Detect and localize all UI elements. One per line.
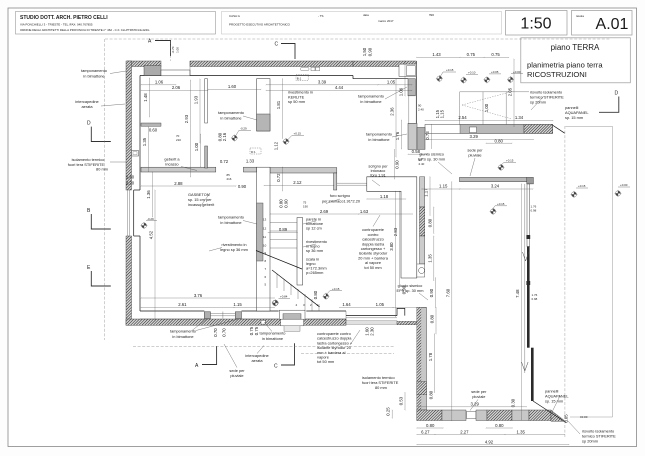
svg-text:6.27: 6.27 (421, 429, 430, 434)
svg-text:0.75: 0.75 (467, 52, 476, 57)
svg-text:1,50: 1,50 (362, 47, 367, 56)
svg-text:- TS: - TS (318, 14, 324, 18)
svg-text:+0.10: +0.10 (468, 71, 476, 75)
svg-text:0.98: 0.98 (531, 208, 537, 212)
svg-text:foro scrigno: foro scrigno (330, 193, 350, 198)
svg-text:tamponamento: tamponamento (358, 94, 384, 99)
svg-text:EPS sp. 30 mm: EPS sp. 30 mm (396, 288, 423, 293)
svg-text:7.60: 7.60 (445, 288, 450, 297)
svg-text:sp 20mm: sp 20mm (582, 439, 598, 444)
svg-text:1.35: 1.35 (427, 254, 432, 263)
svg-text:in bimattone: in bimattone (368, 137, 389, 142)
svg-text:pluviale: pluviale (472, 394, 485, 399)
svg-text:STUDIO DOTT. ARCH. PIETRO CELL: STUDIO DOTT. ARCH. PIETRO CELLI (20, 15, 108, 21)
svg-text:sp 50 mm: sp 50 mm (288, 99, 305, 104)
svg-text:1.06: 1.06 (399, 87, 404, 96)
east glazed wall (527, 184, 530, 247)
svg-text:-0.70: -0.70 (171, 46, 175, 53)
svg-text:0.80: 0.80 (427, 218, 432, 227)
terrace boundary (565, 126, 612, 417)
svg-text:4.52: 4.52 (149, 230, 154, 239)
svg-text:10: 10 (263, 243, 267, 247)
svg-text:1.18: 1.18 (380, 194, 389, 199)
svg-text:±0.00: ±0.00 (580, 415, 588, 419)
svg-text:13: 13 (263, 218, 267, 222)
svg-text:2.06: 2.06 (172, 85, 181, 90)
right wing west wall (417, 307, 427, 410)
svg-text:2.40: 2.40 (419, 162, 425, 166)
svg-text:+0.84: +0.84 (280, 295, 288, 299)
svg-text:p=265mm: p=265mm (306, 270, 323, 275)
svg-text:0.25: 0.25 (386, 407, 391, 416)
svg-text:in bimattone: in bimattone (360, 99, 381, 104)
right wall upper segs (399, 64, 416, 76)
svg-text:1.15: 1.15 (439, 184, 448, 189)
svg-text:data: data (363, 13, 369, 17)
dashed section/boundary lines (104, 39, 106, 340)
svg-text:1.05: 1.05 (387, 80, 396, 85)
svg-text:80 mm: 80 mm (375, 385, 387, 390)
svg-text:1.06: 1.06 (155, 80, 164, 85)
svg-text:0.70: 0.70 (213, 328, 218, 337)
svg-text:2.20: 2.20 (126, 181, 135, 186)
svg-text:0.30: 0.30 (511, 398, 516, 407)
svg-text:1.81: 1.81 (276, 100, 281, 109)
svg-text:tamponamento: tamponamento (81, 68, 107, 73)
stair east wall (297, 218, 303, 285)
svg-text:0.80: 0.80 (426, 423, 435, 428)
svg-text:0.89: 0.89 (279, 227, 288, 232)
svg-text:0.72: 0.72 (220, 159, 229, 164)
svg-text:3.24: 3.24 (491, 184, 500, 189)
svg-text:2.93: 2.93 (184, 114, 189, 123)
wing bottom wall (417, 410, 442, 421)
svg-text:B:1: B:1 (297, 76, 302, 80)
svg-text:foro 1.91: foro 1.91 (370, 173, 385, 178)
east rooms band (270, 168, 337, 173)
svg-text:80 mm: 80 mm (96, 167, 108, 172)
svg-text:0.75: 0.75 (254, 326, 259, 335)
svg-text:1.64: 1.64 (342, 302, 351, 307)
svg-text:C: C (275, 42, 279, 48)
svg-text:3.76: 3.76 (194, 293, 203, 298)
svg-text:ORDINE DEGLI ARCHITETTI DELLA: ORDINE DEGLI ARCHITETTI DELLA PROVINCIA … (20, 28, 150, 32)
svg-text:7.48: 7.48 (515, 289, 520, 298)
svg-text:marzo 2017: marzo 2017 (378, 19, 394, 23)
svg-text:0.80: 0.80 (429, 314, 434, 323)
svg-text:+0.00: +0.00 (620, 183, 628, 187)
svg-text:tamponamento: tamponamento (366, 132, 392, 137)
svg-text:aerata: aerata (81, 104, 93, 109)
svg-text:3.80: 3.80 (389, 242, 394, 251)
svg-text:-0.29: -0.29 (147, 217, 154, 221)
svg-text:+0.15: +0.15 (506, 159, 514, 163)
svg-text:in bimattone: in bimattone (83, 74, 104, 79)
scrigno strip (420, 177, 425, 207)
svg-text:1.60: 1.60 (228, 84, 237, 89)
terrace steps (459, 92, 461, 125)
svg-text:1.34: 1.34 (515, 115, 524, 120)
svg-text:C: C (274, 364, 278, 370)
svg-text:1.43: 1.43 (432, 52, 441, 57)
svg-text:aerata: aerata (251, 358, 263, 363)
svg-text:2.61: 2.61 (178, 302, 187, 307)
svg-text:in bimattone: in bimattone (172, 334, 193, 339)
svg-text:legno sp 36 mm: legno sp 36 mm (220, 247, 248, 252)
svg-text:210: 210 (176, 138, 181, 142)
svg-text:2.12: 2.12 (293, 180, 302, 185)
svg-text:1.78: 1.78 (428, 352, 433, 361)
svg-text:0.90: 0.90 (395, 160, 400, 169)
section markers (91, 41, 619, 366)
svg-text:0.73: 0.73 (425, 131, 430, 140)
svg-text:2.27: 2.27 (460, 429, 469, 434)
svg-text:3.39: 3.39 (318, 80, 327, 85)
glazed south opening (346, 321, 397, 325)
svg-text:0.90: 0.90 (429, 288, 434, 297)
svg-text:1.00: 1.00 (194, 142, 199, 151)
svg-text:0.05: 0.05 (564, 414, 569, 423)
svg-text:agg: agg (429, 13, 434, 17)
svg-text:0.90: 0.90 (284, 199, 289, 208)
svg-text:tavola: tavola (576, 14, 584, 18)
svg-text:1.33: 1.33 (246, 159, 255, 164)
svg-text:D: D (87, 121, 91, 127)
svg-text:in bimattone: in bimattone (262, 336, 283, 341)
svg-text:D: D (615, 91, 619, 97)
svg-text:1.35: 1.35 (142, 137, 147, 146)
svg-text:0.72: 0.72 (276, 173, 281, 182)
svg-text:0,90: 0,90 (368, 47, 373, 56)
svg-text:0.60: 0.60 (149, 127, 158, 132)
svg-text:+0.15: +0.15 (294, 132, 302, 136)
svg-text:pluviale: pluviale (468, 153, 481, 158)
svg-text:190: 190 (303, 204, 308, 208)
svg-text:2.30: 2.30 (369, 327, 374, 336)
svg-text:1.93: 1.93 (194, 95, 199, 104)
svg-text:+0.15: +0.15 (446, 68, 454, 72)
svg-text:1.15: 1.15 (233, 302, 242, 307)
level markers (141, 68, 631, 306)
svg-text:4.92: 4.92 (485, 439, 494, 444)
svg-text:12: 12 (263, 226, 267, 230)
svg-text:2.40: 2.40 (418, 107, 424, 111)
top wall hatch (127, 61, 161, 67)
svg-text:0.90: 0.90 (238, 184, 247, 189)
svg-text:0.80: 0.80 (313, 290, 318, 299)
svg-text:sp. 15 mm: sp. 15 mm (565, 115, 583, 120)
svg-text:+0.15: +0.15 (332, 287, 340, 291)
parapet band upper (425, 125, 553, 134)
svg-text:tamponamento: tamponamento (218, 110, 244, 115)
interior horiz wall (141, 167, 216, 172)
svg-text:sp 20mm: sp 20mm (530, 100, 546, 105)
svg-text:+0.15: +0.15 (497, 202, 505, 206)
svg-text:CASA G: CASA G (229, 14, 241, 18)
svg-text:A.01: A.01 (596, 16, 629, 33)
svg-text:1.35: 1.35 (517, 429, 526, 434)
svg-text:0.80: 0.80 (495, 423, 504, 428)
TITLEBLOCK (16, 11, 633, 83)
svg-text:2.88: 2.88 (174, 181, 183, 186)
svg-text:1.36: 1.36 (146, 190, 151, 199)
svg-text:tamponamento: tamponamento (218, 215, 244, 220)
svg-text:1,15: 1,15 (439, 109, 444, 118)
svg-text:in bimattone: in bimattone (220, 116, 241, 121)
svg-text:+0.00: +0.00 (513, 70, 521, 74)
left wall (126, 61, 132, 190)
svg-text:11: 11 (263, 235, 266, 239)
top wall body (140, 75, 161, 77)
svg-text:1.40: 1.40 (126, 175, 135, 180)
svg-text:planimetria piano terra: planimetria piano terra (527, 61, 603, 70)
svg-text:0.80: 0.80 (429, 390, 434, 399)
svg-text:sp. 15 mm: sp. 15 mm (545, 399, 563, 404)
svg-text:+0.15: +0.15 (578, 184, 586, 188)
svg-text:216: 216 (227, 177, 232, 181)
svg-text:0.98: 0.98 (532, 297, 538, 301)
closet band (141, 123, 161, 126)
svg-text:3.29: 3.29 (470, 134, 479, 139)
svg-text:sp 12 cm: sp 12 cm (306, 226, 322, 231)
svg-text:1:50: 1:50 (520, 16, 551, 33)
leader lines (101, 71, 580, 434)
svg-text:VIA PONCHIELLI 3 - TRIESTE - T: VIA PONCHIELLI 3 - TRIESTE - TEL./FAX: 0… (20, 23, 93, 27)
svg-text:1.00: 1.00 (175, 47, 179, 53)
svg-text:0.75: 0.75 (491, 52, 500, 57)
svg-text:RICOSTRUZIONI: RICOSTRUZIONI (527, 70, 587, 79)
svg-text:1.17: 1.17 (423, 188, 428, 197)
svg-text:PROGETTO ESECUTIVO ARCHITETTON: PROGETTO ESECUTIVO ARCHITETTONICO (229, 23, 291, 27)
svg-text:1,12: 1,12 (274, 141, 279, 150)
svg-text:0.70: 0.70 (221, 328, 226, 337)
svg-text:EPS sp. 30 mm: EPS sp. 30 mm (418, 157, 445, 162)
stairs (270, 223, 319, 312)
DIMS (87, 39, 630, 445)
svg-text:sp 36 mm: sp 36 mm (306, 248, 323, 253)
svg-text:2.69: 2.69 (320, 209, 329, 214)
svg-text:1.63: 1.63 (360, 209, 369, 214)
svg-text:2.16: 2.16 (222, 132, 227, 141)
svg-text:pluviale: pluviale (230, 373, 243, 378)
svg-text:0.53: 0.53 (399, 396, 404, 405)
svg-text:+0.05: +0.05 (491, 70, 499, 74)
svg-text:in bimattone: in bimattone (220, 220, 241, 225)
central wall upper (257, 79, 270, 131)
svg-text:2.36: 2.36 (390, 107, 395, 116)
L wall scrigno (367, 177, 417, 278)
svg-text:tamponamento: tamponamento (260, 331, 286, 336)
svg-text:2.83: 2.83 (393, 227, 398, 236)
svg-text:2.54: 2.54 (458, 115, 467, 120)
svg-text:tot 50 mm: tot 50 mm (364, 265, 381, 270)
porch band (460, 177, 527, 181)
svg-text:0.80: 0.80 (495, 138, 504, 143)
svg-text:-0.29: -0.29 (240, 127, 247, 131)
svg-text:D:1: D:1 (251, 150, 256, 154)
svg-text:incasso geberit: incasso geberit (188, 202, 215, 207)
svg-text:incasso: incasso (165, 162, 178, 167)
svg-text:piano TERRA: piano TERRA (551, 43, 600, 52)
central wall lower (257, 167, 270, 311)
bottom wall main (126, 319, 346, 325)
interior wall x205 (205, 79, 208, 123)
svg-text:1.05: 1.05 (376, 302, 385, 307)
svg-text:1,00: 1,00 (484, 103, 489, 112)
svg-text:tamponamento: tamponamento (170, 329, 196, 334)
svg-text:4.44: 4.44 (335, 85, 344, 90)
svg-text:2.05: 2.05 (508, 87, 513, 96)
WALLS (126, 61, 613, 423)
svg-text:tot 50 mm: tot 50 mm (317, 359, 334, 364)
svg-text:1.48: 1.48 (143, 93, 148, 102)
